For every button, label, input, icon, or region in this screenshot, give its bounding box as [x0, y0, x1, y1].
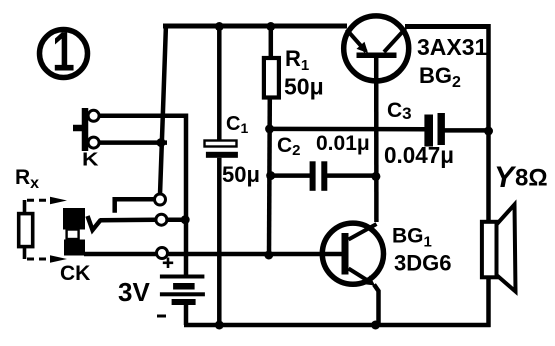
wire: R1 line to C3 (BG2 base node)	[270, 127, 425, 132]
junction: R1 top lead on top rail	[266, 22, 275, 31]
capacitor C1 bottom lead	[217, 158, 222, 327]
wire: Rx bottom lead	[23, 247, 27, 259]
wire: switch K bottom terminal to left vertical line	[100, 140, 168, 145]
junction: BG1 base wire and R1 bottom line	[264, 251, 273, 260]
wire: Rx top lead	[23, 200, 27, 214]
svg-text:CK: CK	[60, 262, 90, 285]
jack CK sleeve contact terminal	[157, 248, 168, 259]
wire: Rx top dashed lead with arrow to plug	[27, 197, 67, 204]
plug CK body	[63, 208, 85, 256]
wire: jack switch contact to battery-positive junction	[100, 217, 156, 222]
wire: top supply rail left segment	[163, 24, 347, 29]
wire: bottom rail	[184, 323, 491, 328]
svg-text:3DG6: 3DG6	[394, 251, 451, 276]
speaker Y horn	[497, 205, 516, 292]
wire: top supply rail right segment	[405, 24, 491, 29]
figure number 1	[40, 21, 88, 83]
resistor Rx	[19, 214, 33, 247]
transistor BG2 base bar	[357, 53, 397, 59]
battery 3V positive long plate	[160, 275, 205, 279]
junction: C1 top lead on top rail	[215, 22, 224, 31]
svg-text:3AX31: 3AX31	[417, 34, 488, 60]
resistor R1 body	[264, 58, 279, 98]
svg-text:0.047μ: 0.047μ	[384, 142, 454, 168]
wire: switch K top terminal right then down to battery positive	[100, 116, 187, 276]
wire: C2 right lead to BG1 collector line	[327, 173, 377, 178]
resistor R1 top lead	[269, 26, 274, 59]
junction: BG1 emitter on bottom rail	[371, 321, 380, 330]
switch K actuator bar	[73, 108, 85, 151]
battery positive sign	[163, 258, 173, 269]
transistor BG2 (PNP) body circle	[344, 16, 409, 81]
wire: right vertical rail (top rail corner down to speaker)	[486, 24, 491, 222]
wire: BG2 base down through C2 node to BG1 collector	[374, 55, 379, 222]
svg-text:0.01μ: 0.01μ	[316, 132, 370, 155]
transistor BG1 emitter lead to bottom rail	[374, 285, 379, 327]
transistor BG1 collector line	[349, 224, 377, 240]
capacitor C1 top lead	[217, 26, 222, 141]
capacitor C1 positive plate (outlined)	[205, 141, 237, 147]
wire: jack sleeve to BG1 base	[168, 252, 343, 257]
transistor BG2 emitter line with arrow into base	[347, 30, 369, 54]
transistor BG1 base bar	[342, 233, 349, 275]
wire: C2 left lead	[271, 173, 311, 178]
battery negative sign	[157, 315, 166, 318]
battery long plate 3	[160, 292, 205, 296]
svg-text:50μ: 50μ	[222, 162, 260, 187]
svg-text:3V: 3V	[118, 277, 150, 307]
jack CK switch arm (check mark)	[88, 216, 102, 230]
wire: L-shaped stub to jack tip terminal	[115, 199, 154, 212]
junction: switch K bottom wire and left vertical	[157, 138, 166, 147]
wire: right vertical rail (speaker down to bottom rail)	[486, 276, 491, 327]
svg-text:1: 1	[52, 21, 74, 83]
capacitor C1 negative plate (solid)	[206, 152, 238, 158]
svg-text:Y8Ω: Y8Ω	[494, 161, 548, 194]
capacitor C3 right plate	[438, 113, 445, 145]
battery short thick plate 4	[172, 299, 196, 305]
wire: Rx bottom dashed lead with arrow to plug	[27, 255, 67, 262]
junction: jack switch contact and battery positive line	[181, 215, 190, 224]
resistor R1 bottom lead down to BG1 base wire	[267, 98, 272, 256]
switch K top contact terminal	[88, 110, 99, 121]
battery short thick plate 2	[173, 283, 195, 290]
svg-text:K: K	[82, 150, 99, 170]
speaker Y driver rectangle	[482, 222, 497, 277]
junction: C3 wire on right rail	[484, 127, 493, 136]
junction: C2 right lead on BG1 collector line	[371, 172, 380, 181]
wire: battery negative lead to bottom rail	[184, 305, 189, 325]
junction: R1 line and BG2 base wire	[265, 124, 274, 133]
capacitor C2 right plate	[321, 161, 327, 191]
capacitor C3 left plate	[424, 115, 433, 147]
svg-text:50μ: 50μ	[284, 74, 324, 100]
jack CK tip contact terminal	[155, 194, 166, 205]
capacitor C2 left plate	[310, 161, 316, 191]
switch K bottom contact terminal	[88, 137, 99, 148]
wire: left vertical from top rail down to jack tip terminal	[160, 24, 166, 195]
transistor BG1 emitter line with arrow out	[349, 269, 376, 286]
transistor BG2 collector line	[384, 29, 406, 53]
transistor BG1 (NPN) body circle	[322, 223, 383, 284]
wire: plug sleeve to jack sleeve terminal	[84, 252, 157, 257]
junction: C1 bottom lead on bottom rail	[215, 321, 224, 330]
jack CK switch contact terminal	[156, 214, 167, 225]
wire: C3 right plate to right rail	[444, 128, 489, 133]
wire: jack switch terminal right stub	[167, 217, 188, 222]
junction: R1 line and C2 left wire	[266, 171, 275, 180]
